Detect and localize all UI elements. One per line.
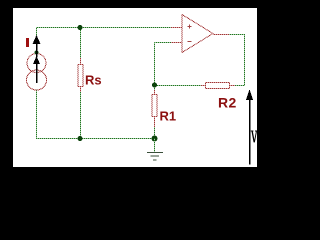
resistor R1 lead top bbox=[154, 90, 156, 94]
current direction arrow annotation bbox=[36, 44, 38, 57]
wire R1 above lead from node B bbox=[154, 85, 156, 90]
wire Rs column lower bbox=[80, 92, 82, 138]
current source I1 pin dot bbox=[35, 51, 39, 55]
junction node at top rail and Rs bbox=[78, 25, 83, 30]
op-amp U1 non-inverting input lead bbox=[171, 27, 182, 29]
wire node B to R2 bbox=[154, 85, 201, 87]
wire output column vertical bbox=[244, 34, 246, 86]
op-amp U1 triangle bbox=[182, 15, 213, 53]
wire feedback from inverting input bbox=[155, 43, 172, 86]
schematic canvas bbox=[13, 8, 257, 167]
svg-text:Rs: Rs bbox=[85, 73, 102, 88]
output voltage label V bbox=[251, 131, 257, 142]
output voltage arrow V shaft bbox=[249, 99, 251, 165]
ground stem bbox=[154, 138, 156, 152]
ground bar 1 bbox=[147, 152, 163, 154]
wire bottom ground rail bbox=[36, 138, 154, 140]
op-amp U1 output lead bbox=[213, 34, 229, 36]
junction node B (R1/R2/feedback) bbox=[152, 83, 157, 88]
op-amp U1 plus sign bbox=[188, 25, 192, 29]
svg-text:R1: R1 bbox=[160, 109, 177, 124]
resistor R2 body bbox=[206, 83, 230, 89]
svg-text:R2: R2 bbox=[218, 95, 237, 111]
wire R1 below lead to rail bbox=[154, 127, 156, 136]
ground bar 3 bbox=[153, 159, 157, 161]
junction node at ground rail and R1 bbox=[152, 136, 158, 142]
current label I bbox=[26, 38, 29, 47]
ground bar 2 bbox=[151, 155, 160, 157]
resistor R1 body bbox=[152, 95, 157, 117]
wire left column upper bbox=[36, 27, 38, 53]
wire op-amp output horizontal bbox=[229, 34, 245, 36]
current source I1 circle bottom bbox=[27, 70, 47, 90]
wire Rs column upper bbox=[80, 27, 82, 58]
resistor Rs body bbox=[78, 65, 83, 87]
wire top rail (node A) bbox=[36, 27, 171, 29]
junction node at ground rail and Rs bbox=[78, 136, 83, 141]
output voltage arrow V head bbox=[246, 89, 253, 100]
resistor R1 lead bottom bbox=[154, 117, 156, 127]
current source I1 internal arrow bbox=[36, 63, 38, 83]
background frame bbox=[0, 0, 286, 176]
resistor Rs lead top bbox=[80, 58, 82, 64]
op-amp U1 minus sign bbox=[188, 41, 192, 43]
wire R2 to output column bbox=[235, 85, 245, 87]
resistor R2 lead left bbox=[201, 85, 206, 87]
resistor Rs lead bottom bbox=[80, 87, 82, 92]
op-amp U1 inverting input lead bbox=[171, 42, 182, 44]
resistor R2 lead right bbox=[230, 85, 236, 87]
current source I1 circle top bbox=[27, 54, 46, 73]
wire left column lower bbox=[36, 89, 38, 139]
